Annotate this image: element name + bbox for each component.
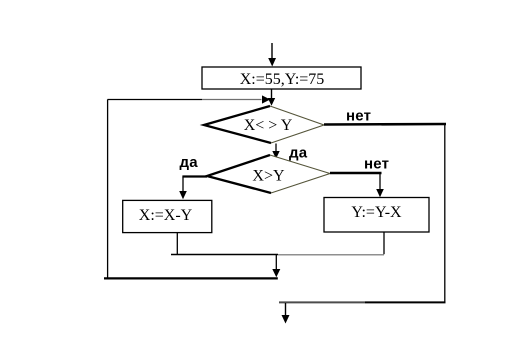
wire: join horizontal (left, black) xyxy=(171,254,278,256)
wire: left block bottom vertical xyxy=(176,233,178,254)
label: нет (decision 2 right branch) xyxy=(364,156,389,173)
svg-text:да: да xyxy=(289,145,308,162)
wire: decision 1 no-branch thick horizontal xyxy=(324,123,446,126)
block: X:=X-Y xyxy=(123,200,212,232)
wire: join horizontal (right, gray) xyxy=(278,254,384,256)
label: да (decision 1) xyxy=(289,145,308,162)
block: Y:=Y-X xyxy=(324,198,429,233)
wire: no-branch vertical arrow into right block xyxy=(376,173,384,197)
svg-text:X>Y: X>Y xyxy=(252,168,285,185)
svg-text:Y:=Y-X: Y:=Y-X xyxy=(351,204,402,221)
svg-text:нет: нет xyxy=(346,108,371,125)
svg-text:да: да xyxy=(180,154,199,171)
wire: start block to decision 1 xyxy=(268,90,275,106)
wire: join arrow down onto loop line xyxy=(272,255,280,277)
svg-text:X< > Y: X< > Y xyxy=(244,117,293,134)
svg-text:X:=55,Y:=75: X:=55,Y:=75 xyxy=(240,71,325,88)
wire: decision 1 to decision 2 arrow xyxy=(272,144,279,159)
wire: loop-back top horizontal with right arrowhead xyxy=(108,95,271,103)
wire: decision 2 no-branch thick horizontal right xyxy=(330,172,382,175)
wire: decision 2 yes-branch thick horizontal left xyxy=(182,175,207,177)
block: X:=55,Y:=75 (start assignment) xyxy=(202,67,361,89)
svg-text:X:=X-Y: X:=X-Y xyxy=(139,207,193,224)
wire: loop-back left vertical xyxy=(107,100,109,278)
wire: entry arrow into start block xyxy=(268,43,276,67)
wire: yes-branch vertical arrow into left block xyxy=(179,177,187,200)
wire: exit horizontal bottom xyxy=(279,301,446,303)
label: нет (decision 1) xyxy=(346,108,371,125)
wire: final exit arrow down xyxy=(282,303,290,324)
svg-text:нет: нет xyxy=(364,156,389,173)
label: да (decision 2 left branch) xyxy=(180,154,199,171)
wire: right block bottom vertical xyxy=(383,232,385,254)
wire: loop-back bottom thick horizontal xyxy=(104,277,278,279)
decision D2: X>Y xyxy=(207,155,330,193)
wire: right side vertical down xyxy=(444,124,446,302)
decision D1: X< > Y xyxy=(204,106,324,143)
